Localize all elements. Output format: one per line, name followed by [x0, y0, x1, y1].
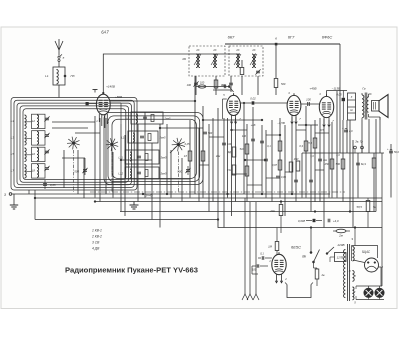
wire vertical drop x391: [390, 144, 392, 198]
svg-text:+4,0: +4,0: [333, 219, 339, 223]
node junction: [142, 193, 144, 195]
transformer T7 lamp winding: [352, 287, 356, 300]
capacitor 1№ at x320: [318, 159, 327, 162]
capacitor trimmer row L5: [44, 149, 49, 154]
node junction: [159, 127, 161, 129]
lamp pilot Л2: [375, 286, 384, 297]
wire vertical drop x374: [373, 153, 375, 212]
wire +250V supply bus: [225, 43, 340, 45]
svg-text:2мк5: 2мк5: [164, 117, 171, 121]
node junction: [120, 159, 122, 161]
label 0,1 value: [267, 145, 271, 148]
label +об near V2: [251, 123, 256, 127]
capacitor C at x253: [251, 139, 255, 141]
capacitor 2,0 at x346: [342, 127, 353, 133]
wire lamps top: [356, 286, 382, 289]
svg-text:1 КВ-1: 1 КВ-1: [92, 229, 102, 233]
wire gang link П3: [178, 152, 180, 193]
wire vertical drop x138: [137, 124, 139, 202]
svg-text:−115В: −115В: [332, 87, 341, 91]
resistor grid stopper V2: [196, 81, 228, 89]
inductor L5 band coil: [11, 148, 32, 162]
tube V2 6К7: [223, 93, 242, 124]
resistor 4Д at x234: [228, 147, 236, 157]
wire interconnect: [245, 159, 266, 161]
wire bus y202: [95, 201, 382, 203]
node selector box 127В: [330, 253, 346, 263]
antenna A1: [55, 39, 63, 56]
svg-text:4 ДВ: 4 ДВ: [92, 247, 100, 251]
node junction: [310, 227, 312, 229]
wire gang link П1: [73, 150, 75, 192]
resistor 250 at x332: [324, 159, 334, 169]
svg-text:Л,3: Л,3: [307, 141, 312, 145]
node junction: [34, 197, 36, 199]
svg-text:0,5: 0,5: [320, 129, 324, 132]
wire interconnect: [232, 129, 247, 131]
label +45В at V4: [309, 87, 316, 91]
svg-text:Гр: Гр: [362, 87, 366, 91]
svg-text:127В: 127В: [337, 256, 344, 260]
inductor L10 oscillator coil box: [121, 131, 166, 143]
svg-text:6Е5С: 6Е5С: [291, 245, 301, 250]
wire V2 anode to V3 grid with coupling capacitor: [241, 97, 288, 106]
capacitor C at x262: [260, 141, 264, 143]
svg-text:5Ц4С: 5Ц4С: [362, 250, 371, 254]
svg-text:L5: L5: [11, 152, 15, 156]
svg-text:6Г7: 6Г7: [288, 35, 295, 40]
svg-text:2С: 2С: [212, 48, 216, 52]
resistor 5к right: [357, 198, 377, 228]
wire vertical drop x285: [284, 125, 286, 216]
inductor L3b band coil col2: [32, 131, 46, 145]
svg-text:Н: Н: [349, 270, 351, 273]
capacitor under T3 secondary: [255, 69, 260, 95]
tube V1 6А7: [96, 94, 110, 128]
wire coil L1 to band coils: [58, 85, 60, 98]
wire interconnect: [120, 103, 122, 124]
svg-text:2м: 2м: [338, 234, 343, 238]
svg-text:L9: L9: [126, 117, 130, 121]
svg-text:3мк5: 3мк5: [161, 156, 167, 160]
wire interconnect: [213, 89, 231, 91]
wire vertical drop x302: [301, 153, 303, 198]
wire vertical drop x113: [112, 152, 114, 198]
label 1,0 value: [336, 154, 340, 157]
tube V6 5Ц4С rectifier: [365, 258, 384, 272]
wire vertical drop x160: [159, 124, 161, 228]
svg-text:1Л: 1Л: [184, 154, 187, 158]
resistor 1М above V5: [268, 228, 279, 255]
wire interconnect: [266, 177, 280, 179]
wire vertical drop x95: [94, 116, 96, 198]
svg-text:L1: L1: [45, 74, 49, 78]
svg-text:З: З: [4, 193, 6, 197]
node junction: [94, 201, 96, 203]
svg-text:500: 500: [74, 170, 79, 174]
wire interconnect: [52, 121, 95, 123]
svg-text:КБ: КБ: [183, 57, 187, 61]
inductor L7 band coil: [11, 165, 32, 179]
label +140В at V1 anode: [106, 85, 115, 89]
wire vertical drop x280: [279, 118, 281, 198]
label 3×45 gang: [145, 194, 153, 198]
wire interconnect: [209, 136, 224, 138]
svg-text:2С: 2С: [195, 48, 199, 52]
tube V3 6Г7: [287, 91, 301, 124]
svg-text:0,25: 0,25: [185, 143, 190, 146]
transformer T7 heater winding: [349, 270, 356, 281]
wire vertical drop x311: [310, 125, 312, 212]
wire top stub 9: [351, 228, 355, 246]
wire interconnect: [285, 171, 292, 173]
wire vertical drop x324: [323, 119, 325, 228]
svg-text:2в: 2в: [321, 273, 326, 277]
node junction: [349, 211, 351, 213]
svg-text:2С: 2С: [251, 48, 255, 52]
label T3 trimmers 2С: [235, 48, 255, 52]
node junction: [280, 201, 282, 203]
switch П3 wafer: [170, 138, 185, 153]
node junction: [279, 134, 281, 136]
wire interconnect: [315, 132, 329, 134]
IF transformer T3 dashed box: [229, 46, 263, 76]
switch mains voltage selector: [326, 243, 345, 254]
resistor R at x291: [289, 162, 293, 172]
tube V4 6Ф6С: [319, 92, 334, 127]
label 0,5 value: [320, 129, 324, 132]
capacitor padder 500 right: [177, 166, 190, 175]
wire top-left bus from antenna tube V1 grid: [103, 54, 240, 95]
svg-text:L6: L6: [32, 152, 36, 156]
node junction: [314, 211, 316, 213]
wire vertical drop x209: [208, 124, 210, 212]
wire vertical drop x320: [319, 118, 321, 202]
svg-text:L10: L10: [121, 136, 126, 140]
inductor L8 band coil col2: [32, 164, 46, 178]
label 5Ц4С: [362, 250, 371, 254]
capacitor C at x266: [264, 159, 268, 161]
capacitor padder 500 left: [74, 166, 87, 175]
inductor L11 oscillator coil box: [119, 150, 167, 164]
node junction: [261, 119, 263, 121]
wire bus y219 with step: [35, 220, 382, 228]
resistor 510 at x247: [240, 144, 249, 154]
resistor 2в: [314, 263, 326, 286]
label 6Е5С: [291, 245, 301, 250]
wire vertical drop x227: [227, 118, 229, 198]
resistor 500 at x343: [336, 159, 345, 169]
resistor 0,3 at x306: [299, 141, 307, 151]
lamp pilot Л1: [364, 286, 373, 297]
resistor R at x298: [296, 161, 300, 171]
svg-text:0,05: 0,05: [50, 183, 56, 187]
wire heater drops with arrows: [245, 198, 256, 294]
wire interconnect: [315, 169, 324, 171]
svg-text:2,0: 2,0: [348, 130, 353, 133]
capacitor under T2 primary: [187, 76, 199, 95]
wire interconnect: [203, 119, 262, 121]
svg-text:3мк5: 3мк5: [161, 172, 167, 176]
label title: [65, 266, 198, 275]
label 2мк value: [215, 155, 221, 158]
transformer T5 output choke box: [348, 93, 356, 120]
label tube V1 type 6А7: [101, 30, 109, 35]
node junction: [231, 129, 233, 131]
capacitor 0,05 at x278: [276, 176, 286, 179]
wire vertical drop x100: [99, 118, 101, 202]
svg-text:25И: 25И: [293, 158, 299, 161]
node junction: [227, 193, 229, 195]
wire vertical drop x353: [352, 140, 354, 228]
wire interconnect: [62, 157, 85, 159]
capacitor trimmer row L7: [44, 166, 49, 171]
label -115В at V4: [332, 87, 341, 91]
wire vertical drop x125: [124, 135, 126, 216]
wire vertical drop x203: [202, 106, 204, 198]
node grid-cap stub tube V1: [93, 90, 105, 94]
svg-text:ПЗ: ПЗ: [71, 74, 75, 78]
node grid cap V2: [224, 85, 233, 92]
svg-text:6К7: 6К7: [228, 35, 236, 40]
node junction: [217, 219, 219, 221]
inductor L2 band coil col2: [32, 114, 46, 128]
label 25И value: [293, 158, 299, 161]
svg-text:L4: L4: [11, 119, 15, 123]
svg-text:50,0: 50,0: [394, 151, 399, 154]
inductor L4 band coil: [11, 115, 32, 129]
wire interconnect: [247, 184, 262, 186]
wire vertical drop x358: [357, 153, 359, 198]
svg-text:Вк: Вк: [302, 255, 306, 259]
svg-text:100: 100: [252, 268, 257, 272]
wire vertical drop x171: [170, 150, 172, 198]
wire interconnect: [121, 159, 152, 161]
label -1,5В near V3: [277, 121, 285, 125]
node junction: [252, 102, 254, 104]
wire antenna to coil L1: [58, 62, 60, 68]
wire from +250 bus down at x=340: [339, 44, 341, 153]
wire gang dash-dot link: [90, 191, 345, 193]
svg-text:1№: 1№: [323, 159, 327, 162]
label tube V3 type 6Г7: [288, 35, 295, 40]
resistor R at x247: [245, 166, 249, 176]
wire vertical drop x350: [349, 120, 351, 212]
wire vertical drop x84: [83, 158, 85, 198]
resistor 2м horizontal: [333, 229, 350, 237]
node junction: [291, 193, 293, 195]
wire vertical drop x145: [144, 112, 146, 198]
wire vertical drop x224: [223, 118, 225, 228]
capacitor C at x296: [294, 180, 298, 182]
wire vertical drop x253: [252, 107, 254, 198]
wire interconnect: [266, 134, 280, 136]
svg-text:П: П: [354, 275, 356, 278]
node junction: [261, 193, 263, 195]
wire vertical drop x231: [231, 124, 233, 216]
node junction: [194, 100, 196, 102]
svg-text:0,97: 0,97: [272, 163, 278, 167]
capacitor 0,05 bank bottom: [43, 180, 56, 189]
node anode junction V4 0,05: [327, 91, 348, 121]
wire vertical drop x306: [305, 106, 307, 198]
wire rectifier leads: [353, 260, 381, 286]
capacitor 500 at x205: [203, 132, 213, 135]
wire vertical drop x332: [331, 122, 333, 198]
capacitor grid V5: [258, 252, 272, 260]
inductor L9 oscillator coil box: [126, 112, 171, 124]
wire vertical drop x218: [217, 108, 219, 220]
wire vertical drop x329: [328, 120, 330, 198]
node junction: [202, 119, 204, 121]
svg-text:1,0: 1,0: [336, 154, 340, 157]
capacitor 0,008: [298, 219, 322, 223]
svg-text:+80В: +80В: [115, 95, 122, 99]
wire interconnect: [298, 124, 318, 126]
inductor T3 primary: [234, 54, 241, 68]
wire vertical drop x244: [243, 103, 245, 194]
wire band-switch loop harness: [11, 98, 137, 191]
wire interconnect: [199, 164, 209, 166]
wire vertical drop x347: [346, 120, 348, 153]
switch Вк mains: [302, 228, 319, 264]
inductor L1 antenna coil box: [45, 67, 75, 85]
resistor small above T3: [240, 60, 244, 95]
resistor Л,3 at x315: [307, 138, 317, 148]
capacitor +4,0: [328, 219, 339, 223]
wire bus y211: [120, 211, 376, 213]
wire vertical drop x167: [166, 124, 168, 194]
ground symbol mid: [130, 202, 139, 210]
wire gramophone bus: [302, 152, 384, 154]
wire vertical drop x190: [189, 120, 191, 198]
svg-text:0,008: 0,008: [298, 219, 305, 223]
wire interconnect: [160, 178, 190, 180]
wire vertical drop x343: [342, 120, 344, 202]
wire vertical drop x235: [235, 118, 237, 202]
transformer T7 power primary: [344, 250, 346, 298]
wire vertical drop x315: [314, 120, 316, 202]
resistor R at x280: [278, 141, 282, 151]
wire right bus to lamps: [381, 153, 383, 286]
capacitor V3 to V4 coupling: [301, 98, 319, 107]
wire vertical drop x262: [261, 125, 263, 194]
wire heater loop: [285, 283, 313, 298]
switch П2 wafer: [106, 138, 119, 151]
speaker Гр1: [372, 95, 389, 118]
label legend band positions: [91, 229, 102, 251]
label pin numbers V1: [96, 106, 111, 125]
capacitor 50,0 at x391: [387, 148, 399, 154]
svg-text:58,5: 58,5: [357, 205, 363, 209]
svg-text:500: 500: [281, 82, 286, 86]
svg-text:500: 500: [336, 162, 341, 166]
label 0,25 value: [185, 143, 190, 146]
svg-text:4Д: 4Д: [228, 150, 231, 154]
resistor under T2 secondary: [214, 76, 225, 95]
wire vertical drop x182: [181, 158, 183, 202]
wire interconnect: [52, 127, 88, 129]
wire vertical drop x106: [105, 118, 107, 194]
capacitor C at x311: [309, 180, 313, 182]
resistor R at x203: [201, 151, 205, 161]
resistor 0,97 at x280: [272, 160, 282, 170]
inductor L3 band coil: [11, 132, 32, 146]
node rectifier enclosure: [352, 246, 378, 262]
svg-text:L8: L8: [32, 169, 36, 173]
resistor R at x374: [372, 158, 376, 168]
inductor T2 secondary: [211, 54, 218, 68]
wire vertical drop x380: [379, 117, 381, 153]
node junction b on +250 bus: [275, 37, 278, 46]
svg-text:510: 510: [240, 147, 245, 151]
svg-text:Радиоприемник Пукане-РЕТ YV-66: Радиоприемник Пукане-РЕТ YV-663: [65, 266, 198, 275]
wire bank to bus: [29, 190, 35, 220]
capacitor Бк,9 at x358: [356, 163, 367, 166]
svg-text:5,0: 5,0: [310, 155, 314, 158]
label 5,0 value: [310, 155, 314, 158]
node antenna plug: [58, 54, 65, 61]
wire speaker to transformer: [369, 94, 381, 120]
svg-text:L7: L7: [11, 169, 15, 173]
wire vertical drop x199: [198, 128, 200, 202]
wire lamps bottom: [356, 296, 384, 300]
wire vertical drop x337: [336, 91, 338, 198]
wire interconnect: [110, 100, 196, 102]
svg-text:Бк,9: Бк,9: [361, 163, 367, 166]
capacitor under T3 primary: [222, 76, 233, 92]
resistor screen dropper under junction b: [274, 79, 286, 96]
wire interconnect: [88, 103, 96, 105]
svg-text:0,1: 0,1: [267, 145, 271, 148]
node junction: [354, 227, 356, 229]
wire vertical drop x266: [265, 130, 267, 198]
svg-text:100: 100: [187, 83, 192, 87]
inductor L6 band coil col2: [32, 147, 46, 161]
svg-text:−1,5В: −1,5В: [277, 121, 285, 125]
capacitor 100 at x224: [222, 143, 232, 146]
wire vertical drop x152: [151, 143, 153, 220]
capacitor trimmer row L4: [44, 116, 49, 121]
node junction: [244, 159, 246, 161]
wire interconnect: [110, 102, 121, 104]
svg-text:1М: 1М: [268, 245, 273, 249]
wire bus y198: [35, 197, 382, 199]
tube V5 6Е5С: [269, 252, 287, 283]
wire gang link П2: [111, 152, 113, 193]
transformer T7 HV winding: [352, 247, 355, 261]
resistor 20к: [269, 202, 283, 234]
resistor 15к at x234: [227, 165, 236, 175]
wire interconnect: [232, 173, 247, 175]
transformer T7 core: [348, 244, 350, 301]
svg-text:6А7: 6А7: [101, 30, 109, 35]
svg-text:500: 500: [208, 132, 213, 135]
svg-text:250: 250: [324, 162, 330, 166]
wire interconnect: [296, 129, 306, 131]
node junction: [305, 124, 307, 126]
svg-text:0,3: 0,3: [299, 144, 303, 148]
svg-text:2 КВ-2: 2 КВ-2: [91, 235, 102, 239]
resistor 1Л at x190: [184, 151, 192, 161]
wire vertical drop x369: [368, 119, 370, 153]
wire oscillator loop harness: [104, 113, 203, 185]
wire ground bus y194: [12, 193, 330, 195]
node arrow terminals ЛАМ: [242, 294, 259, 300]
label T2 trimmers 2С: [183, 48, 217, 61]
wire vertical drop x292: [291, 117, 293, 194]
capacitor trimmer row L3: [44, 133, 49, 138]
